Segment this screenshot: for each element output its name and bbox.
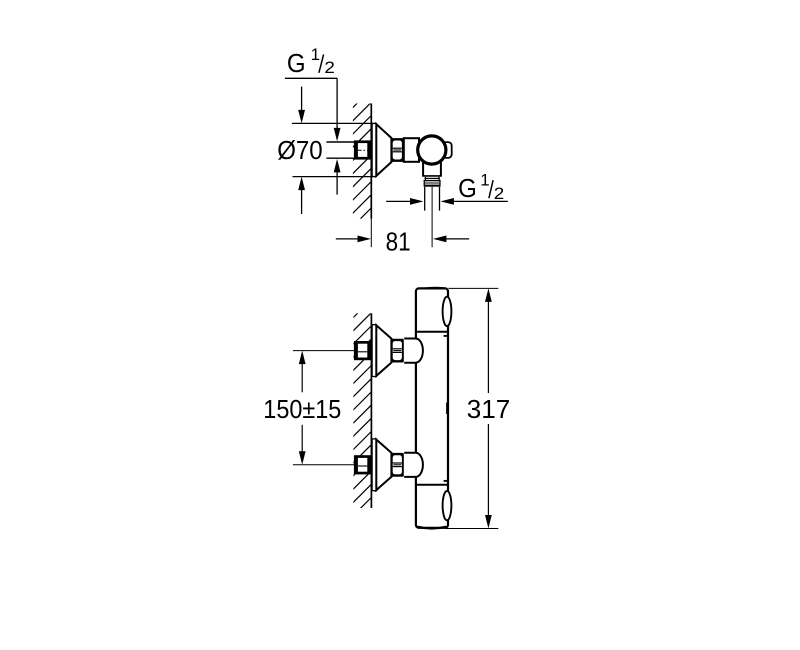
top view escutcheon flange xyxy=(372,124,376,177)
upper control knob xyxy=(443,297,452,326)
outlet connector rings xyxy=(425,177,440,180)
dimension 317 line and arrows xyxy=(485,288,492,528)
lower wall socket xyxy=(354,455,371,474)
upper inlet escutcheon cone xyxy=(376,325,391,376)
svg-text:150±15: 150±15 xyxy=(263,394,341,424)
150±15 extension line upper xyxy=(293,350,358,352)
dimension Ø70 arrows xyxy=(298,87,305,214)
svg-text:1: 1 xyxy=(480,170,489,189)
outlet neck below thermostat xyxy=(422,158,442,176)
svg-text:317: 317 xyxy=(467,394,511,424)
stop button mark on bar right edge xyxy=(446,403,448,415)
317 extension line top xyxy=(449,287,499,289)
Ø70 extension lines xyxy=(292,123,376,176)
lower tick xyxy=(444,480,448,482)
svg-text:G: G xyxy=(287,48,306,78)
dimension 81 xyxy=(336,236,469,243)
lower inlet escutcheon cone xyxy=(376,440,391,491)
handle cap on right of thermostat body xyxy=(443,142,452,158)
svg-text:Ø70: Ø70 xyxy=(277,135,323,165)
top view escutcheon cone xyxy=(376,124,391,176)
upper wall socket xyxy=(354,341,371,360)
150±15 extension line lower xyxy=(293,464,358,466)
wall extension line down to 81 dimension xyxy=(370,219,372,248)
wall socket (top view) xyxy=(354,140,371,159)
317 extension line bottom xyxy=(445,528,498,530)
hose centerline / 81 extension xyxy=(431,187,433,247)
label G 1/2 (outlet) xyxy=(458,170,504,203)
wall line (top view) xyxy=(370,104,372,219)
thermostat body (circle) xyxy=(418,136,446,164)
upper seam line xyxy=(416,331,448,333)
G1/2 leader: underline, drop line and arrows at pipe xyxy=(285,78,341,194)
upper inlet escutcheon flange xyxy=(372,325,376,377)
upper tick xyxy=(444,335,448,337)
svg-text:G: G xyxy=(458,173,477,203)
bar top cap curve xyxy=(424,287,448,290)
lower inlet hex connection nut xyxy=(391,453,404,477)
lower control knob xyxy=(443,491,452,520)
svg-text:1: 1 xyxy=(311,45,320,64)
top view hex connection nut xyxy=(391,138,404,162)
outlet hose nut xyxy=(424,180,441,187)
wall line (bottom view) xyxy=(370,313,372,508)
supply pipe behind wall xyxy=(326,142,355,158)
dimension 150±15 line and arrows xyxy=(299,351,306,465)
upper inlet elbow dome xyxy=(404,339,423,363)
label G 1/2 (top left) xyxy=(287,45,335,78)
thermostat bar body xyxy=(416,288,448,527)
lower inlet elbow dome xyxy=(404,453,423,477)
bar bottom cap lens xyxy=(417,527,446,529)
lower seam line xyxy=(416,484,448,486)
lower inlet escutcheon flange xyxy=(372,439,376,491)
svg-text:81: 81 xyxy=(386,226,411,256)
union body between nut and thermostat xyxy=(404,138,419,162)
G1/2 hose arrows xyxy=(386,198,508,205)
shower hose outlet xyxy=(425,187,440,211)
upper inlet hex connection nut xyxy=(391,339,404,363)
svg-text:2: 2 xyxy=(494,185,505,203)
svg-text:2: 2 xyxy=(324,59,335,77)
